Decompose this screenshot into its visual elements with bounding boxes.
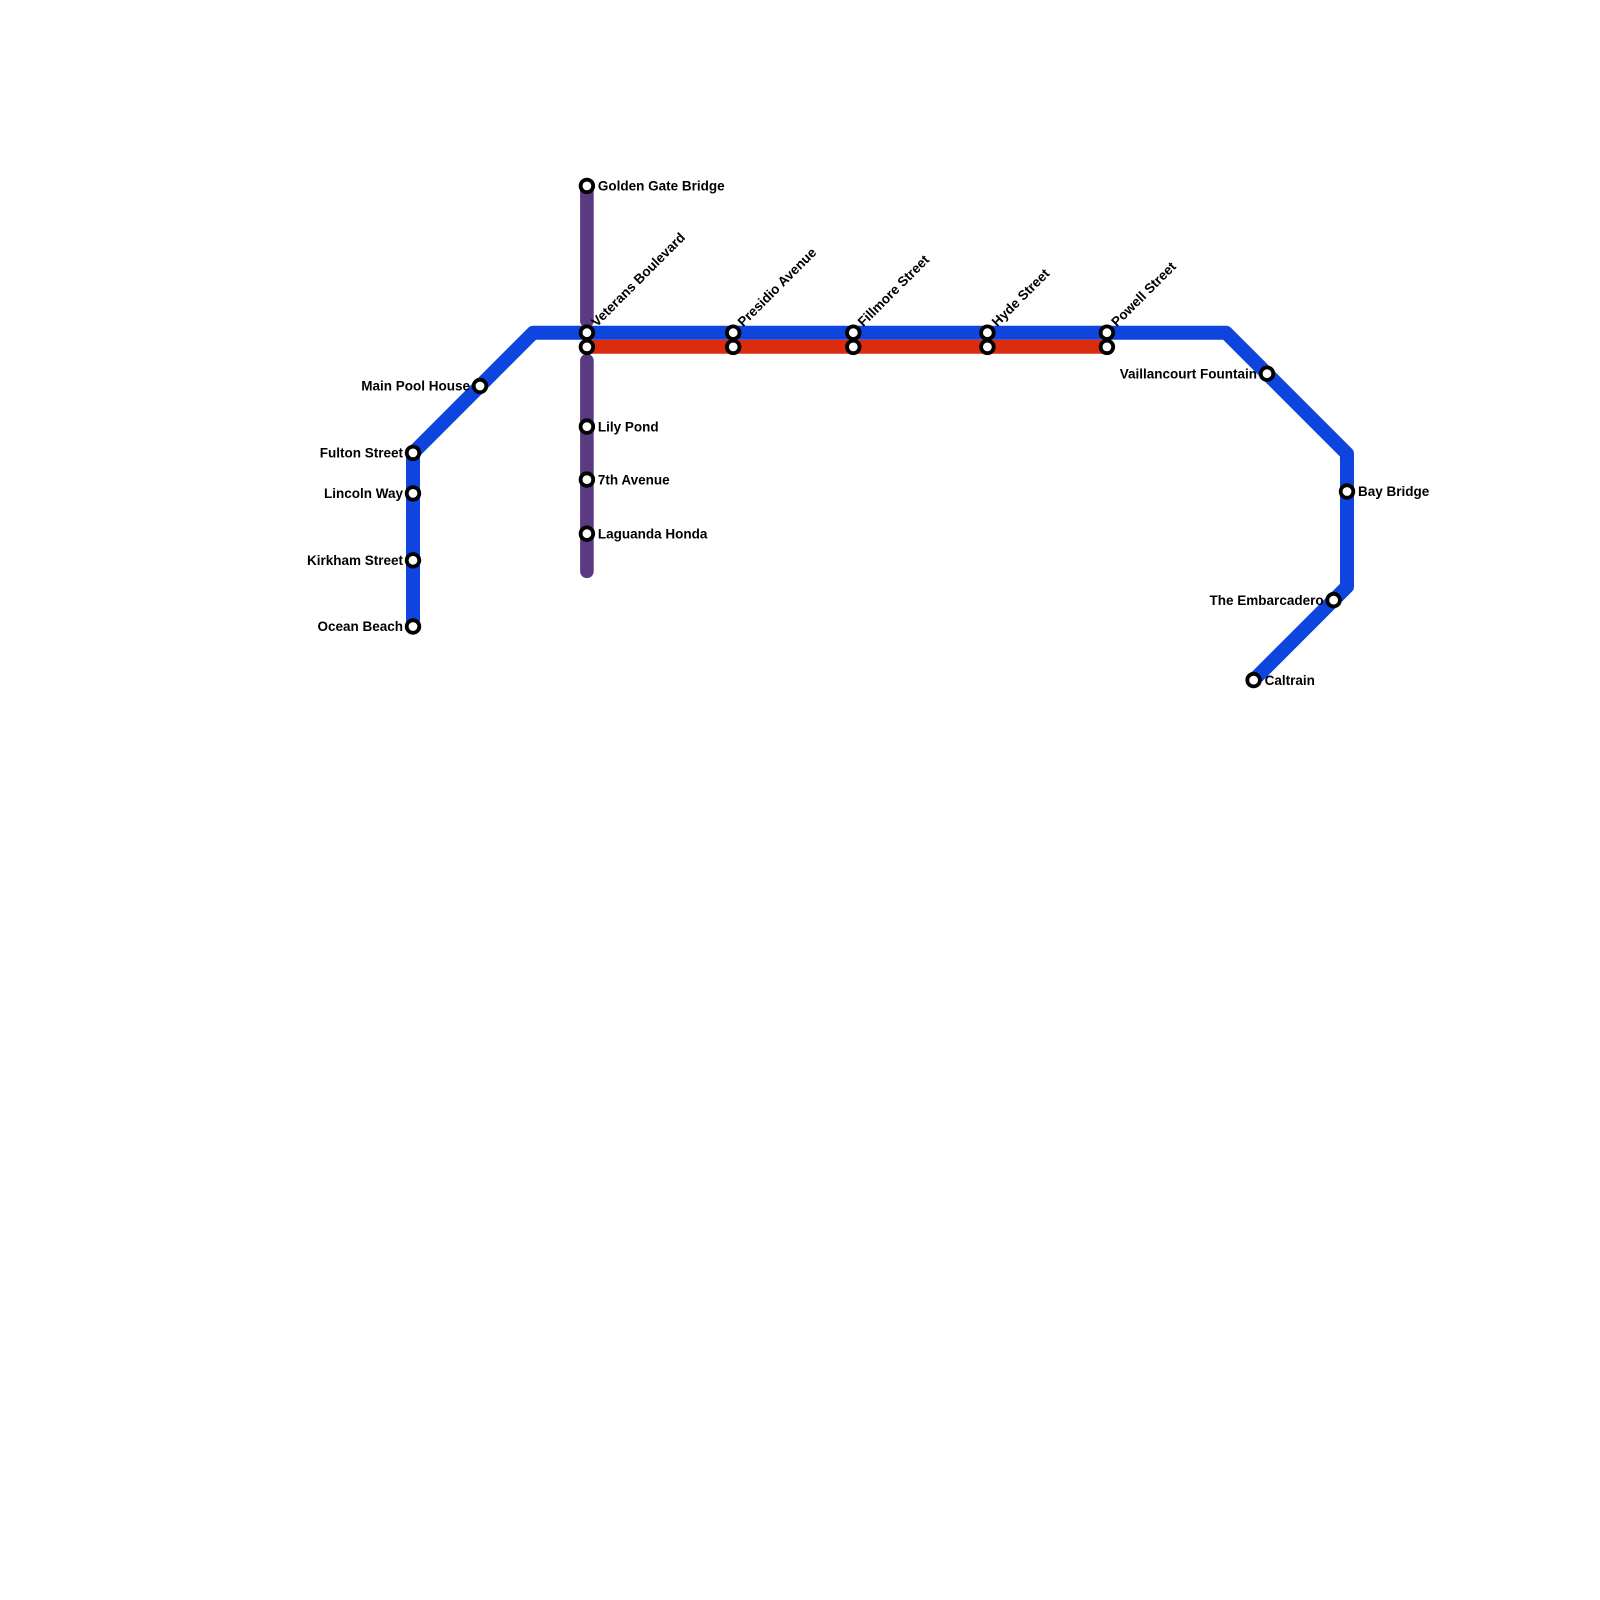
svg-text:Hyde Street: Hyde Street [989, 266, 1053, 330]
svg-text:Powell Street: Powell Street [1108, 259, 1179, 330]
svg-text:Vaillancourt Fountain: Vaillancourt Fountain [1120, 366, 1257, 381]
svg-text:7th Avenue: 7th Avenue [598, 472, 670, 487]
svg-text:Veterans Boulevard: Veterans Boulevard [588, 230, 688, 330]
station Hyde Street blue [981, 326, 994, 339]
station Veterans Boulevard red [581, 341, 594, 354]
station Ocean Beach [407, 620, 420, 633]
purple line lower segment (Veterans Boulevard to line end past Laguanda Honda) [580, 361, 594, 572]
svg-text:Caltrain: Caltrain [1265, 673, 1315, 688]
svg-text:Laguanda Honda: Laguanda Honda [598, 526, 708, 541]
svg-text:Bay Bridge: Bay Bridge [1358, 484, 1430, 499]
station The Embarcadero [1327, 594, 1340, 607]
svg-text:Lincoln Way: Lincoln Way [324, 486, 403, 501]
svg-text:The Embarcadero: The Embarcadero [1210, 593, 1324, 608]
svg-text:Presidio Avenue: Presidio Avenue [735, 244, 820, 329]
station Fillmore Street red [847, 341, 860, 354]
blue line (Ocean Beach to Caltrain) [413, 333, 1347, 680]
svg-text:Lily Pond: Lily Pond [598, 419, 659, 434]
station 7th Avenue [581, 473, 594, 486]
station Laguanda Honda [581, 527, 594, 540]
station Veterans Boulevard blue [581, 326, 594, 339]
svg-text:Fulton Street: Fulton Street [320, 446, 404, 461]
station Kirkham Street [407, 554, 420, 567]
station Caltrain [1247, 674, 1260, 687]
station Bay Bridge [1341, 485, 1354, 498]
station Fillmore Street blue [847, 326, 860, 339]
purple line upper segment (Golden Gate Bridge to Veterans Boulevard) [580, 186, 594, 321]
station Presidio Avenue blue [727, 326, 740, 339]
station Lincoln Way [407, 487, 420, 500]
station Golden Gate Bridge [581, 180, 594, 193]
red line (Veterans Boulevard to Powell Street) [587, 340, 1107, 354]
station Powell Street blue [1101, 326, 1114, 339]
svg-text:Kirkham Street: Kirkham Street [307, 553, 404, 568]
station Vaillancourt Fountain [1261, 367, 1274, 380]
svg-text:Golden Gate Bridge: Golden Gate Bridge [598, 179, 725, 194]
svg-text:Main Pool House: Main Pool House [361, 379, 470, 394]
svg-text:Fillmore Street: Fillmore Street [855, 252, 933, 330]
station Hyde Street red [981, 341, 994, 354]
station Main Pool House [474, 380, 487, 393]
station Fulton Street [407, 447, 420, 460]
svg-text:Ocean Beach: Ocean Beach [317, 619, 403, 634]
station Presidio Avenue red [727, 341, 740, 354]
station Lily Pond [581, 420, 594, 433]
station Powell Street red [1101, 341, 1114, 354]
